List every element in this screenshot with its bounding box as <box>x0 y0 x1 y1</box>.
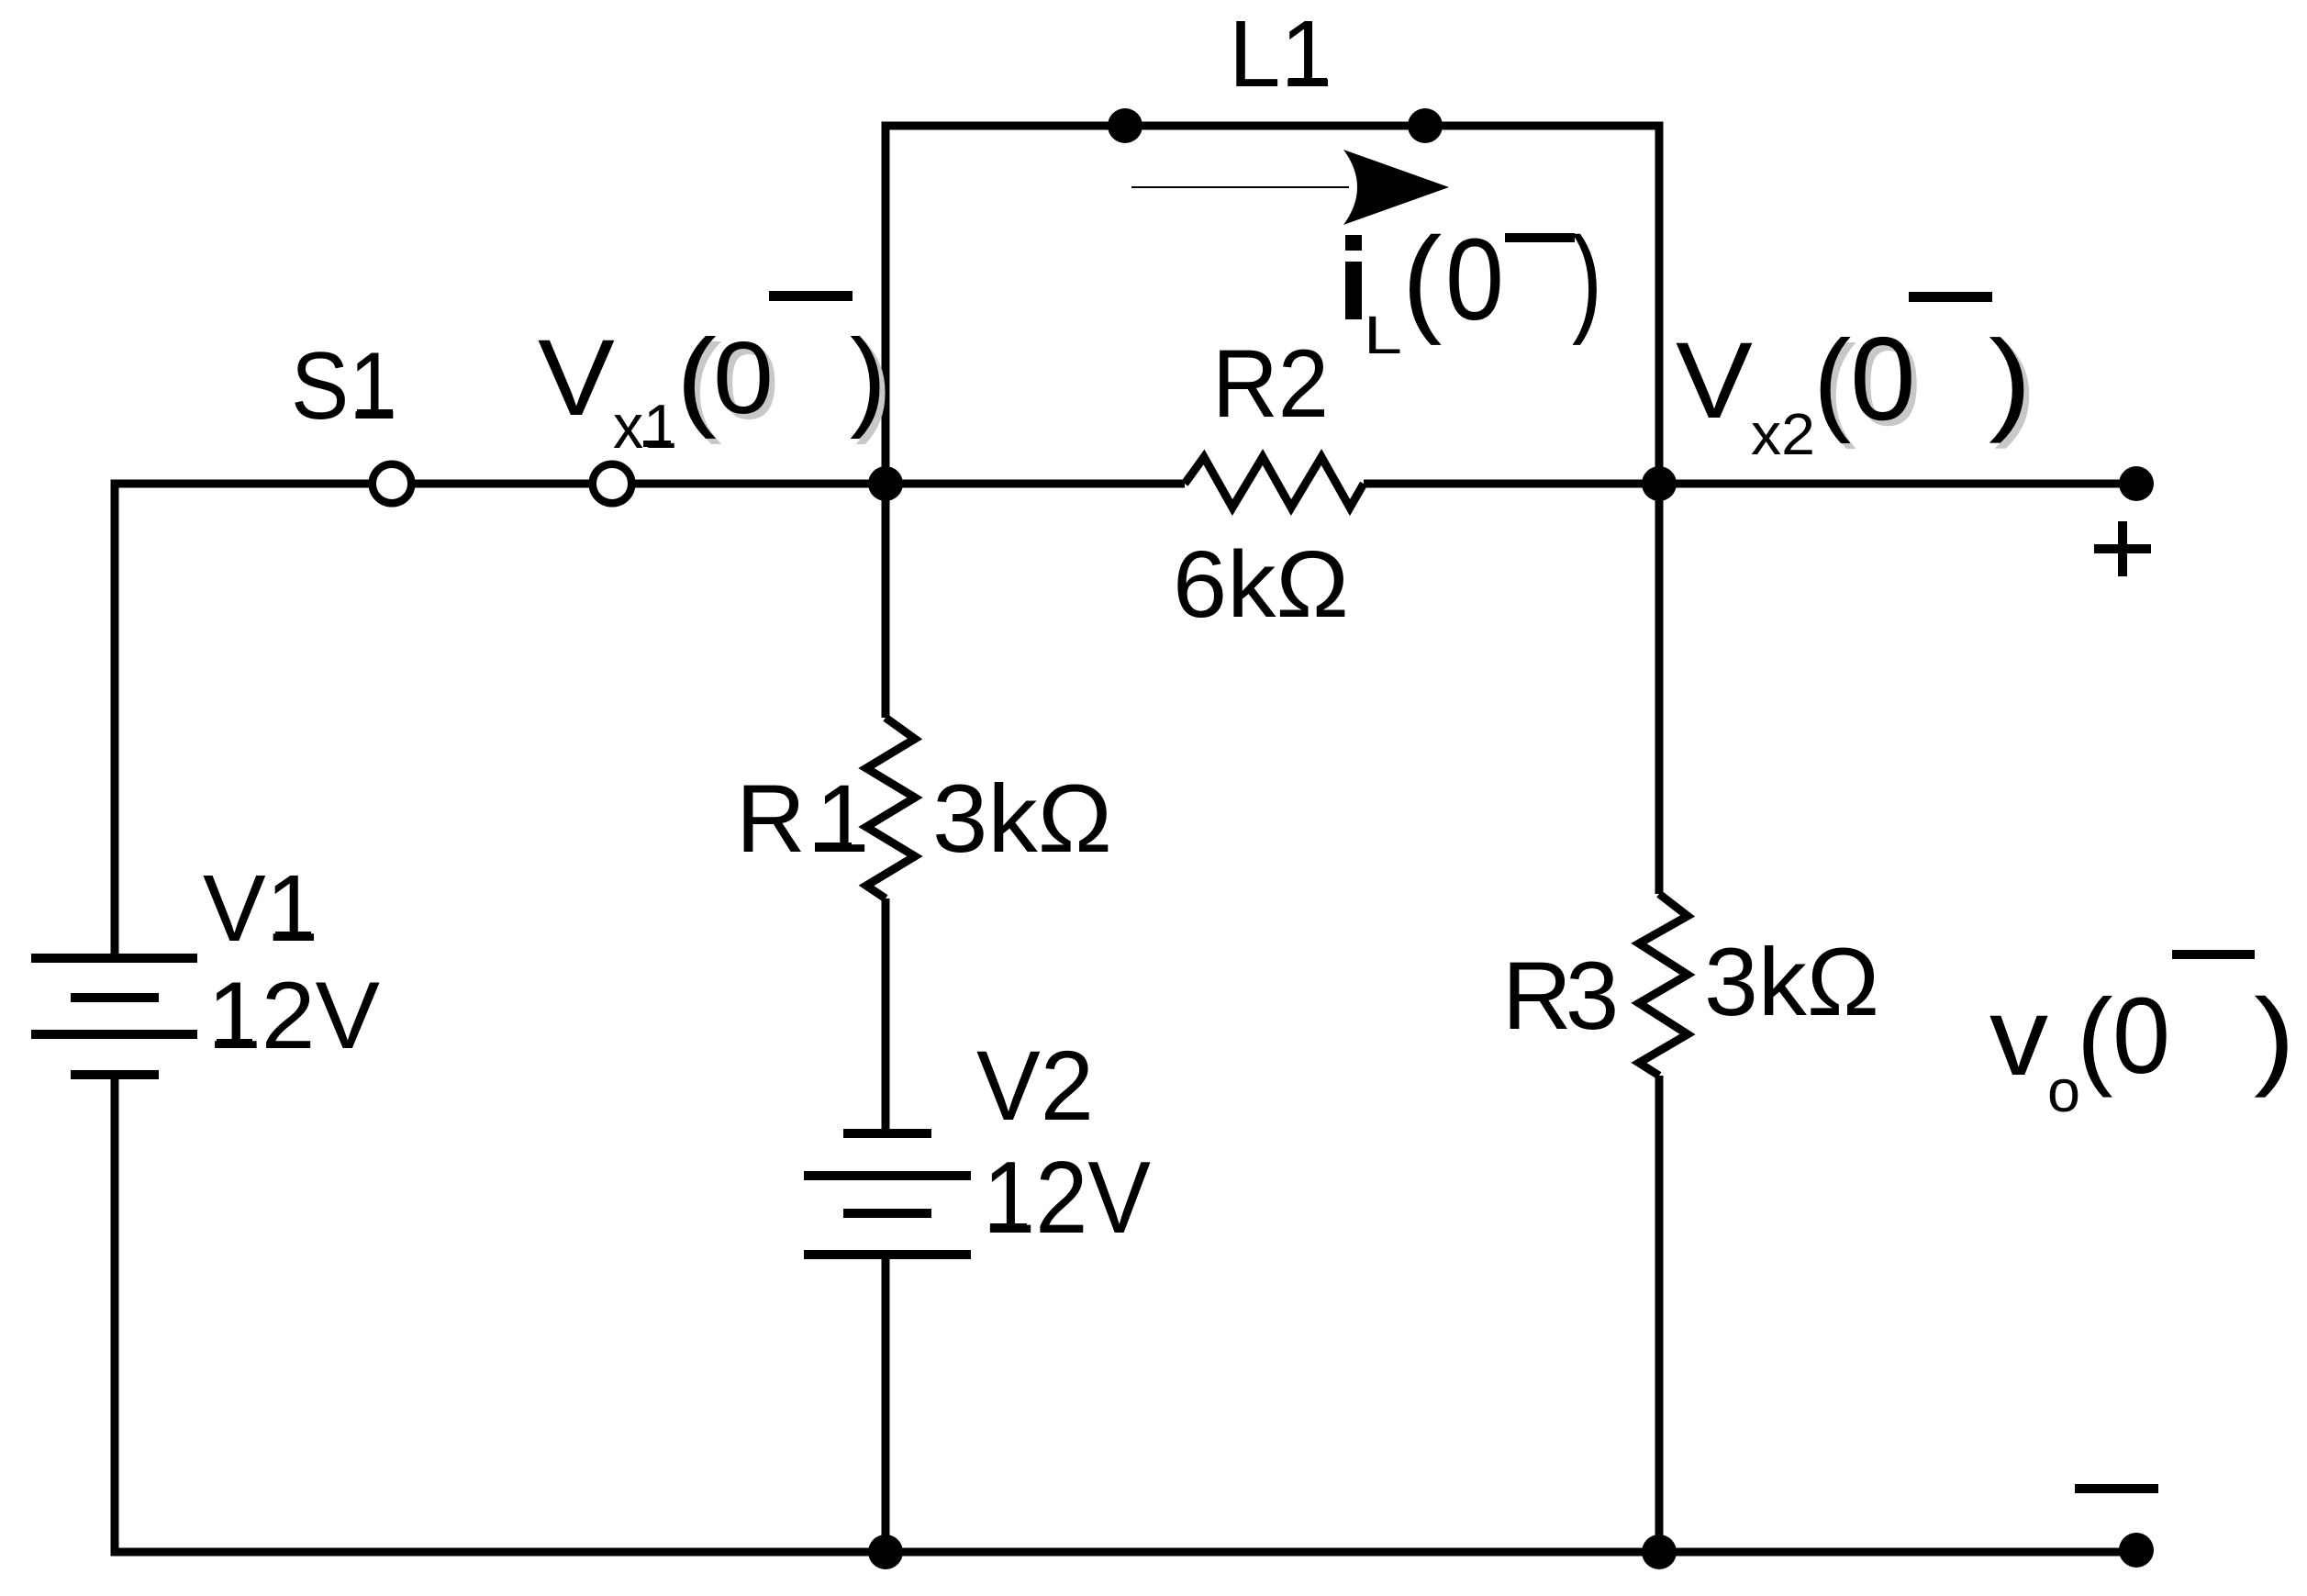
svg-text:v: v <box>1989 974 2048 1099</box>
svg-text:R2: R2 <box>1212 330 1329 438</box>
svg-text:L: L <box>1364 306 1402 365</box>
svg-text:3kΩ: 3kΩ <box>1704 929 1879 1036</box>
svg-text:0: 0 <box>2112 976 2170 1097</box>
svg-text:3kΩ: 3kΩ <box>932 765 1112 873</box>
svg-text:x2: x2 <box>1751 401 1815 467</box>
svg-text:0: 0 <box>1850 313 1916 445</box>
svg-text:V: V <box>1676 320 1753 441</box>
svg-text:(: ( <box>1813 318 1851 444</box>
svg-text:(: ( <box>2077 977 2113 1099</box>
svg-text:0: 0 <box>1445 215 1504 344</box>
svg-text:(: ( <box>676 317 717 440</box>
svg-text:V: V <box>538 318 615 439</box>
svg-text:): ) <box>1989 318 2032 444</box>
svg-text:6kΩ: 6kΩ <box>1173 531 1349 637</box>
svg-text:(: ( <box>1402 212 1442 346</box>
svg-text:12V: 12V <box>983 1141 1151 1255</box>
svg-text:o: o <box>2047 1057 2080 1124</box>
svg-text:R3: R3 <box>1502 943 1615 1050</box>
svg-text:): ) <box>1572 212 1602 346</box>
svg-text:R1: R1 <box>736 765 879 873</box>
svg-text:S1: S1 <box>291 333 397 440</box>
svg-text:): ) <box>2254 977 2295 1099</box>
svg-text:V1: V1 <box>203 855 318 961</box>
svg-text:V2: V2 <box>976 1030 1094 1141</box>
svg-text:L1: L1 <box>1229 1 1332 106</box>
svg-text:12V: 12V <box>207 963 380 1069</box>
svg-text:): ) <box>850 317 886 440</box>
svg-text:x1: x1 <box>613 392 677 462</box>
svg-text:0: 0 <box>713 321 774 435</box>
